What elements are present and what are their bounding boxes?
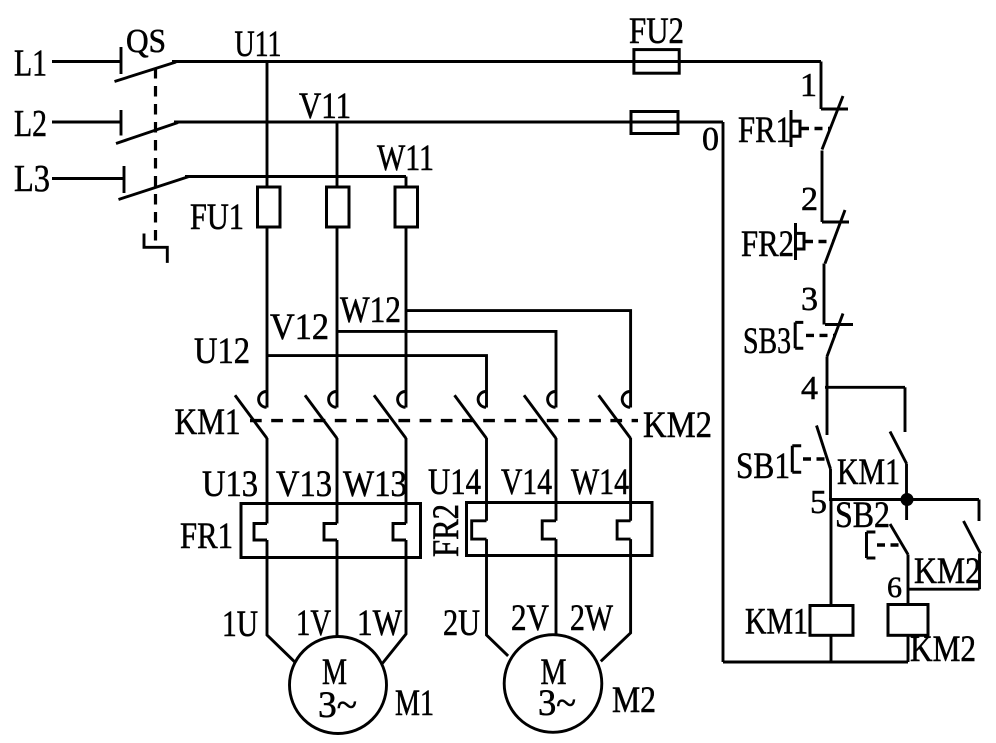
contact FR2 label [741,223,794,264]
relay FR2 label rotated [425,504,466,557]
motor M1 3-phase mark [318,684,357,725]
node U12 [194,330,250,371]
button SB2 top terminal [905,500,908,521]
wire SB1 bottom [829,469,832,500]
svg-text:2: 2 [801,181,818,218]
wire L1 lead [52,60,121,63]
button SB1 NO top terminal [826,387,829,435]
svg-text:V14: V14 [501,461,552,502]
node 1W [357,602,402,643]
svg-text:KM2: KM2 [910,628,976,669]
wire SB2 bottom [907,555,910,605]
svg-text:V13: V13 [276,463,332,504]
node U13 [202,463,258,504]
svg-text:3~: 3~ [538,682,576,723]
switch QS linkage dashed [154,68,157,244]
svg-text:M1: M1 [395,682,434,723]
contactor KM2 pole U blade [455,395,487,438]
wire V14 vertical [555,438,558,521]
svg-text:FR1: FR1 [180,515,233,556]
wire 1V vertical [336,540,339,637]
svg-text:U12: U12 [194,330,250,371]
relay FR1 label [180,515,233,556]
wire L2 row [174,121,723,124]
svg-text:4: 4 [801,370,818,407]
contact FR2 NC blade [825,210,845,264]
contactor KM2 pole W arc [622,392,630,408]
button SB3 NC blade [827,314,843,357]
svg-text:1: 1 [800,67,817,104]
svg-text:W12: W12 [340,289,401,330]
wire 0 bus [722,122,725,662]
node 2 [801,181,818,218]
contact KM1 aux top terminal [904,387,907,432]
wire KM2 coil bottom [907,635,910,662]
svg-text:3: 3 [801,281,818,318]
svg-text:KM2: KM2 [643,404,712,445]
svg-text:U11: U11 [235,23,282,64]
contact KM2 aux top terminal [978,500,981,522]
contactor KM1 pole W arc [398,392,406,408]
svg-text:U14: U14 [428,461,481,502]
svg-text:5: 5 [810,484,827,521]
wire V11-V12 vertical [336,227,339,408]
wire 2U vertical [487,539,509,656]
node L2 [14,103,47,145]
wire U11-U12 vertical [266,227,269,408]
button SB1 actuator [792,446,801,473]
wire L3 row [185,175,406,178]
svg-text:2U: 2U [443,602,480,643]
relay FR1 paddle [791,110,800,147]
coil KM1 label [745,601,808,642]
fuse FU1b body [327,187,350,227]
button SB3 actuator dashes [806,334,836,337]
contactor KM2 pole V arc [548,392,556,408]
wire W12 branch [406,311,631,408]
node L1 [14,43,47,85]
button SB3 NC tick [825,323,853,326]
node 3 [801,281,818,318]
svg-text:FR2: FR2 [425,504,466,557]
svg-text:V12: V12 [270,306,329,347]
wire control rail segment A [820,62,823,110]
node 1 [800,67,817,104]
contactor KM1 pole V blade [305,395,337,438]
wire V11 vertical [336,122,339,187]
switch QS handle [144,234,167,263]
svg-text:3~: 3~ [318,684,357,725]
wire KM1 coil bottom [830,635,833,662]
node 5 [810,484,827,521]
button SB1 label [736,445,790,486]
wire U13 vertical [266,438,269,524]
node V11 [299,85,351,126]
button SB2 actuator dashes [877,543,901,546]
relay FR1 heater W [393,524,406,541]
svg-text:SB3: SB3 [743,320,791,361]
node 6 [887,571,902,604]
fuse FU2 label [629,10,684,51]
node W11 [377,137,434,178]
node V14 [501,461,552,502]
wire 1U vertical [267,540,295,662]
relay FR2 box [467,503,653,556]
wire V13 vertical [336,438,339,524]
relay FR2 heater W [617,521,631,539]
fuse FU1 label [190,196,244,237]
wire 1W vertical [382,540,406,664]
wire node 6 branch [908,588,980,591]
svg-text:0: 0 [702,121,719,158]
motor M2 circle [504,635,602,733]
contact FR1 NC blade [822,96,843,150]
fuse FU1c body [395,187,418,227]
contactor KM1 pole W blade [374,395,406,438]
wire 2V vertical [555,539,558,634]
relay FR2 heater V [542,521,556,539]
node 4 [801,370,818,407]
relay FR1 paddle dashes [801,127,831,130]
contactor KM2 label [643,404,712,445]
motor M2 letter M [541,651,567,692]
switch QS pole 1 fixed contact [120,47,123,74]
button SB1 NO blade [817,426,831,470]
node W12 [340,289,401,330]
button SB2 actuator [867,532,876,558]
contact KM1 aux label [837,451,900,492]
wire U14 vertical [485,438,488,521]
svg-text:FR2: FR2 [741,223,794,264]
coil KM1 body [810,606,853,636]
contactor linkage dashed [250,419,638,422]
node 2U [443,602,480,643]
svg-text:FU2: FU2 [629,10,684,51]
wire L3 lead [52,177,124,180]
coil KM2 body [888,605,928,636]
node 2V [511,597,549,638]
coil KM2 label [910,628,976,669]
contactor KM1 pole V arc [329,392,337,408]
node W13 [343,463,407,504]
motor M2 3-phase mark [538,682,576,723]
svg-text:W13: W13 [343,463,407,504]
contactor KM1 label [175,401,241,442]
node 0 [702,121,719,158]
svg-text:6: 6 [887,571,902,604]
switch QS pole 2 blade [116,123,178,144]
node W14 [571,461,629,502]
switch QS pole 3 blade [119,177,190,200]
svg-text:L1: L1 [14,43,47,85]
wire control rail segment C [823,264,826,325]
switch QS pole 2 fixed contact [120,110,123,136]
svg-text:2W: 2W [570,597,613,638]
wire KM1 aux bottom [905,464,908,500]
junction dot [901,493,914,506]
wire L2 lead [52,121,121,124]
fuse FU2a body [634,50,679,74]
svg-text:KM1: KM1 [837,451,900,492]
svg-text:M2: M2 [612,679,656,720]
contact KM2 aux blade [964,521,981,554]
wire W14 vertical [629,438,632,521]
contactor KM1 pole U arc [259,392,267,408]
button SB1 actuator dashes [803,457,827,460]
wire 2W vertical [601,539,631,661]
switch QS label [126,23,166,60]
relay FR2 heater U [472,521,487,539]
motor M1 letter M [322,651,347,692]
node U11 [235,23,282,64]
wire L1 row [172,60,821,63]
relay FR2 paddle [796,223,805,260]
svg-text:L3: L3 [14,158,50,200]
relay FR2 paddle dashes [805,240,833,243]
node 1U [222,603,258,644]
relay FR1 heater V [324,524,337,541]
contact KM2 aux label [914,550,981,591]
wire bottom return [723,661,908,664]
wire W13 vertical [405,438,408,524]
svg-text:KM1: KM1 [745,601,808,642]
wire node 5 branch [829,498,979,501]
svg-text:FU1: FU1 [190,196,244,237]
wire V12 branch [337,331,556,407]
svg-text:1U: 1U [222,603,258,644]
wire U12 branch [267,356,487,408]
svg-text:W11: W11 [377,137,434,178]
svg-text:QS: QS [126,23,166,60]
svg-text:FR1: FR1 [738,109,791,150]
fuse FU2b body [631,112,678,134]
contact FR1 NC tick [821,108,848,111]
wire W11 vertical [405,177,408,188]
fuse FU1a body [258,187,281,227]
svg-text:SB2: SB2 [835,494,890,535]
button SB2 label [835,494,890,535]
contactor KM1 pole U blade [235,395,267,438]
switch QS pole 3 fixed contact [123,166,126,193]
node V12 [270,306,329,347]
contact KM1 aux blade [890,432,907,464]
relay FR1 box [241,504,421,558]
button SB3 actuator [795,322,803,348]
wire U11 vertical [266,62,269,188]
node L3 [14,158,50,200]
wire KM1 coil top [830,500,833,606]
motor M2 label [612,679,656,720]
node 2W [570,597,613,638]
node 1V [296,602,331,643]
contactor KM2 pole W blade [599,395,631,438]
motor M1 label [395,682,434,723]
svg-text:L2: L2 [14,103,47,145]
button SB3 label [743,320,791,361]
svg-text:KM1: KM1 [175,401,241,442]
svg-text:1W: 1W [357,602,402,643]
node V13 [276,463,332,504]
contact FR1 label [738,109,791,150]
wire W11-W12 vertical [405,227,408,408]
wire control rail segment B [821,151,824,223]
wire KM2 aux bottom [978,554,981,590]
svg-text:SB1: SB1 [736,445,790,486]
wire node 4 branch [825,386,905,389]
motor M1 circle [290,637,387,734]
svg-text:KM2: KM2 [914,550,981,591]
svg-text:U13: U13 [202,463,258,504]
contactor KM2 pole V blade [524,395,556,438]
contactor KM2 pole U arc [478,392,486,408]
switch QS pole 1 blade [115,62,177,82]
svg-text:V11: V11 [299,85,351,126]
wire control rail segment D [826,357,829,388]
contact FR2 NC tick [822,221,849,224]
svg-text:2V: 2V [511,597,549,638]
node U14 [428,461,481,502]
svg-text:W14: W14 [571,461,629,502]
button SB2 NO blade [890,524,908,555]
relay FR1 heater U [254,524,267,541]
